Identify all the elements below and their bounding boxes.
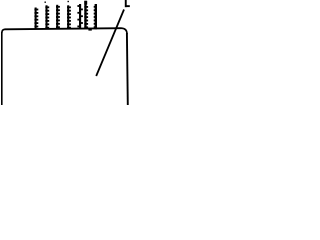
speck above bar 2 (45, 2, 46, 3)
enclosure box top edge (5, 28, 122, 29)
coil turn bar 6 (84, 1, 88, 29)
enclosure box right edge (126, 33, 129, 106)
coil turn bar 2 (45, 5, 49, 29)
coil turn bar 5 (77, 4, 83, 29)
partial letter L (cropped label, top right) (125, 0, 130, 7)
coil turn bar 7 (teeth on left) (94, 4, 97, 29)
coil turn bar 3 (56, 5, 60, 29)
enclosure box top-left rounded corner (2, 29, 5, 33)
coil turn bar 1 (34, 8, 38, 30)
speck above bar 4 (68, 1, 69, 2)
enclosure box top-right rounded corner (121, 28, 127, 34)
junction blob where bar 6 meets box top edge (88, 28, 91, 31)
enclosure box left edge (1, 32, 3, 106)
adjustment arrow (diagonal line) (96, 10, 124, 77)
coil turn bar 4 (67, 5, 71, 29)
